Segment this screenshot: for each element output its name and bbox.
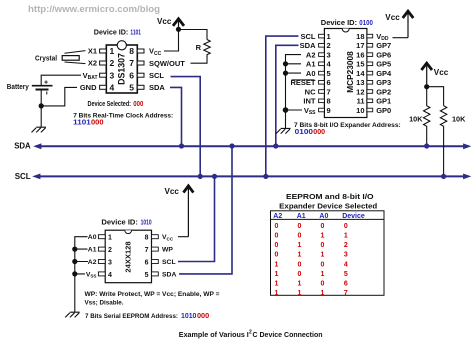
ground 24XX128 [65, 312, 79, 317]
svg-text:Vcc: Vcc [434, 67, 449, 77]
svg-text:Crystal: Crystal [35, 55, 57, 62]
svg-text:1: 1 [275, 271, 279, 278]
wire Vcc node to resistor R [179, 30, 208, 40]
svg-text:Vcc: Vcc [385, 12, 400, 22]
svg-text:GND: GND [80, 83, 97, 92]
svg-text:5: 5 [327, 69, 331, 78]
svg-text:18: 18 [356, 32, 364, 41]
svg-text:6: 6 [145, 260, 149, 267]
svg-text:GP5: GP5 [376, 60, 391, 69]
svg-text:1: 1 [108, 235, 112, 242]
svg-text:GP2: GP2 [376, 87, 391, 96]
svg-text:13: 13 [356, 78, 364, 87]
svg-text:11: 11 [357, 97, 365, 106]
svg-text:VSS: VSS [304, 106, 316, 116]
IC 24XX128 left pin labels [86, 234, 97, 278]
svg-text:SDA: SDA [149, 83, 165, 92]
svg-text:0: 0 [321, 281, 325, 288]
svg-text:WP: Write Protect, WP = Vcc; E: WP: Write Protect, WP = Vcc; Enable, WP … [85, 291, 220, 298]
SCL bus [32, 174, 471, 180]
svg-text:0100: 0100 [359, 20, 373, 27]
SDA bus [33, 143, 471, 149]
svg-text:GP1: GP1 [376, 97, 391, 106]
svg-text:1: 1 [110, 46, 115, 56]
table data rows [275, 223, 348, 297]
svg-text:Device ID:: Device ID: [101, 218, 137, 227]
svg-text:8: 8 [145, 235, 149, 242]
svg-text:6: 6 [344, 281, 348, 288]
svg-text:10: 10 [356, 106, 364, 115]
resistor R [204, 40, 210, 58]
svg-text:4: 4 [108, 272, 112, 279]
svg-text:1101: 1101 [73, 117, 91, 126]
table header row [273, 213, 365, 220]
svg-text:Vcc: Vcc [157, 16, 172, 26]
svg-text:5: 5 [145, 272, 149, 279]
svg-text:8: 8 [327, 97, 331, 106]
wire DS1307 SDA to bus [170, 87, 182, 146]
IC MCP23008 left pin numbers [327, 32, 332, 115]
svg-text:000: 000 [91, 117, 104, 126]
svg-text:X2: X2 [88, 59, 97, 68]
junction 24XX128 SDA bus [229, 143, 234, 148]
svg-text:0: 0 [275, 223, 279, 230]
IC DS1307 pin stubs [100, 49, 144, 89]
svg-text:SCL: SCL [15, 172, 31, 181]
battery BT1 [32, 86, 53, 95]
svg-text:24XX128: 24XX128 [124, 241, 133, 272]
wire VDD to Vcc [393, 37, 409, 39]
crystal X1 [62, 51, 85, 64]
svg-text:A0: A0 [306, 69, 316, 78]
svg-text:1: 1 [344, 233, 348, 240]
IC DS1307 left pin labels [80, 47, 98, 92]
power Vcc 24XX128 [183, 186, 193, 237]
wire battery minus down [40, 90, 42, 128]
junction battery node [39, 103, 44, 108]
svg-text:1: 1 [298, 242, 302, 249]
svg-text:0: 0 [321, 242, 325, 249]
svg-text:SCL: SCL [301, 32, 316, 41]
svg-text:3: 3 [108, 260, 112, 267]
svg-text:VBAT: VBAT [83, 71, 98, 81]
svg-text:SDA: SDA [14, 142, 31, 151]
IC 24XX128 body [105, 230, 151, 283]
wire 24XX128 SCL to bus [178, 176, 215, 261]
svg-text:2: 2 [327, 41, 331, 50]
svg-text:SDA: SDA [162, 271, 176, 278]
svg-text:4: 4 [110, 83, 115, 93]
svg-text:Expander Device Selected: Expander Device Selected [279, 201, 377, 210]
svg-text:GP3: GP3 [376, 78, 391, 87]
IC DS1307 body [106, 41, 137, 93]
svg-text:1: 1 [321, 252, 325, 259]
svg-text:A2: A2 [88, 259, 97, 266]
svg-text:10K: 10K [452, 115, 466, 124]
svg-text:http://www.ermicro.com/blog: http://www.ermicro.com/blog [28, 4, 160, 14]
svg-text:X1: X1 [88, 47, 97, 56]
svg-text:1: 1 [275, 261, 279, 268]
svg-text:EEPROM and 8-bit I/O: EEPROM and 8-bit I/O [286, 192, 374, 201]
wire Vcc node to resistor RP2 [427, 87, 444, 106]
svg-text:1: 1 [275, 281, 279, 288]
svg-text:3: 3 [344, 252, 348, 259]
svg-text:1: 1 [298, 290, 302, 297]
svg-text:DS1307: DS1307 [117, 53, 127, 85]
svg-text:7 Bits Serial EEPROM Address:: 7 Bits Serial EEPROM Address: [85, 313, 178, 320]
svg-text:000: 000 [133, 101, 143, 108]
svg-text:Device: Device [342, 213, 365, 220]
svg-text:GP4: GP4 [376, 69, 392, 78]
svg-text:5: 5 [344, 271, 348, 278]
svg-text:A1: A1 [88, 247, 97, 254]
svg-text:A1: A1 [306, 60, 316, 69]
svg-text:7: 7 [344, 290, 348, 297]
svg-text:SDA: SDA [300, 41, 316, 50]
svg-text:GP6: GP6 [376, 51, 391, 60]
svg-text:WP: WP [162, 247, 173, 254]
wire 24XX128 address common [75, 237, 88, 312]
table box [271, 211, 385, 295]
svg-text:0: 0 [298, 223, 302, 230]
svg-text:A0: A0 [319, 213, 328, 220]
resistor RP1 10K [424, 87, 430, 146]
IC MCP23008 left pin labels [290, 32, 316, 116]
svg-text:1010: 1010 [181, 311, 196, 320]
svg-text:6: 6 [129, 70, 134, 80]
svg-text:9: 9 [327, 106, 331, 115]
junction DS1307 SDA bus [179, 143, 184, 148]
svg-text:1: 1 [298, 252, 302, 259]
IC MCP23008 pin stubs [319, 34, 373, 112]
IC MCP23008 right pin numbers [356, 32, 365, 115]
power Vcc pull-ups [421, 63, 432, 86]
svg-text:0100: 0100 [295, 127, 313, 136]
svg-text:0: 0 [298, 271, 302, 278]
junction RP2 SCL bus [441, 174, 446, 179]
svg-text:Battery: Battery [7, 84, 29, 91]
svg-text:NC: NC [305, 87, 316, 96]
svg-text:0: 0 [275, 242, 279, 249]
svg-text:1101: 1101 [130, 30, 141, 37]
svg-text:8: 8 [129, 46, 134, 56]
svg-text:Device ID:: Device ID: [94, 28, 129, 37]
junction MCP23008 SCL bus [263, 174, 268, 179]
svg-text:2: 2 [344, 242, 348, 249]
wire DS1307 SCL to bus [171, 77, 201, 177]
IC 24XX128 pin numbers [108, 235, 149, 279]
svg-text:SQW/OUT: SQW/OUT [149, 59, 185, 68]
junction Vcc pull-ups [424, 84, 429, 89]
svg-text:GP0: GP0 [376, 106, 391, 115]
svg-text:0: 0 [344, 223, 348, 230]
ground MCP23008 [276, 128, 291, 133]
svg-text:16: 16 [356, 51, 364, 60]
svg-text:Vss; Disable.: Vss; Disable. [85, 300, 124, 307]
svg-text:C Device Connection: C Device Connection [253, 330, 323, 339]
svg-text:SCL: SCL [162, 259, 176, 266]
IC MCP23008 body [324, 29, 367, 118]
IC MCP23008 right pin labels [376, 32, 392, 115]
IC DS1307 right pin labels [149, 47, 185, 92]
svg-text:7: 7 [145, 247, 149, 254]
junction MCP23008 SDA bus [273, 143, 278, 148]
svg-text:1: 1 [298, 281, 302, 288]
svg-text:Device Selected:: Device Selected: [88, 101, 132, 108]
svg-text:6: 6 [327, 78, 331, 87]
junction A1 24XX128 [72, 247, 77, 252]
svg-text:2: 2 [108, 247, 112, 254]
svg-text:1: 1 [321, 271, 325, 278]
svg-text:VCC: VCC [162, 234, 174, 241]
power Vcc MCP23008 [403, 11, 414, 38]
svg-text:14: 14 [356, 69, 365, 78]
svg-text:0: 0 [298, 233, 302, 240]
svg-text:17: 17 [356, 41, 364, 50]
junction VSS 24XX128 [72, 271, 77, 276]
wire GND pin to battery node [41, 87, 77, 106]
wire MCP23008 A2 A1 A0 VSS common [286, 55, 303, 129]
resistor RP2 10K [440, 106, 446, 177]
IC DS1307 pin numbers [110, 46, 135, 92]
svg-text:000: 000 [197, 311, 209, 320]
svg-text:MCP23008: MCP23008 [345, 51, 355, 93]
svg-text:Vcc: Vcc [165, 186, 180, 196]
svg-text:5: 5 [129, 83, 134, 93]
svg-text:3: 3 [110, 70, 115, 80]
svg-text:10K: 10K [409, 115, 423, 124]
junction RP1 SDA bus [424, 143, 429, 148]
svg-text:1: 1 [275, 290, 279, 297]
wire MCP23008 SDA to bus [276, 45, 299, 146]
wire resistor R to SQW/OUT [191, 57, 208, 64]
wire 24XX128 VCC pin [178, 236, 188, 238]
svg-text:1010: 1010 [141, 220, 152, 227]
svg-text:0: 0 [275, 252, 279, 259]
svg-text:0: 0 [321, 261, 325, 268]
junction A1 [283, 61, 288, 66]
wire VBAT to battery [41, 75, 81, 86]
svg-text:3: 3 [327, 51, 331, 60]
svg-text:1: 1 [327, 32, 331, 41]
IC 24XX128 right pin labels [162, 234, 176, 278]
svg-text:R: R [196, 43, 202, 52]
svg-text:VSS: VSS [86, 271, 97, 278]
svg-text:15: 15 [356, 60, 364, 69]
svg-text:0: 0 [321, 223, 325, 230]
svg-text:INT: INT [303, 97, 316, 106]
svg-text:+: + [44, 80, 48, 87]
ground battery [31, 127, 46, 132]
svg-text:1: 1 [321, 233, 325, 240]
svg-text:A0: A0 [88, 234, 97, 241]
svg-text:0: 0 [275, 233, 279, 240]
wire 24XX128 SDA to bus [179, 146, 232, 274]
svg-text:A1: A1 [297, 213, 306, 220]
svg-text:Example of Various I: Example of Various I [179, 330, 249, 339]
junction A0 [283, 71, 288, 76]
svg-text:0: 0 [298, 261, 302, 268]
svg-text:7: 7 [327, 87, 331, 96]
svg-text:7: 7 [129, 58, 134, 68]
svg-text:A2: A2 [306, 51, 316, 60]
svg-text:4: 4 [344, 261, 348, 268]
svg-text:VCC: VCC [149, 47, 162, 57]
svg-text:12: 12 [356, 87, 364, 96]
junction VSS [283, 107, 289, 113]
power Vcc DS1307 [173, 19, 184, 29]
svg-text:Device ID:: Device ID: [321, 18, 357, 27]
svg-text:A2: A2 [273, 213, 282, 220]
svg-text:GP7: GP7 [376, 41, 391, 50]
svg-text:2: 2 [110, 58, 115, 68]
wire MCP23008 SCL to bus [266, 36, 299, 176]
junction A2 24XX128 [72, 259, 77, 264]
junction 24XX128 SCL bus [212, 174, 217, 179]
label RESET overline [292, 79, 315, 81]
svg-text:000: 000 [313, 127, 325, 136]
IC 24XX128 pin stubs [98, 235, 158, 276]
svg-text:SCL: SCL [149, 71, 164, 80]
junction DS1307 SCL bus [198, 174, 203, 179]
svg-text:1: 1 [321, 290, 325, 297]
wire Vcc node to VCC pin [164, 29, 179, 51]
junction Vcc DS1307 [176, 27, 181, 32]
